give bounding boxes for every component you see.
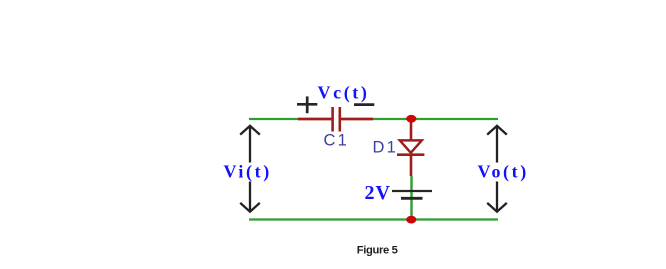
diode D1: [397, 140, 424, 154]
polarity minus sign: [354, 103, 374, 106]
wire bottom rail green: [249, 218, 498, 220]
svg-text:Figure 5: Figure 5: [357, 245, 398, 257]
wire top rail green left segment: [249, 118, 298, 120]
node junction bottom: [406, 216, 416, 224]
label Vo(t): [476, 162, 529, 183]
polarity plus sign: [297, 96, 317, 113]
wire capacitor left lead (red): [298, 118, 331, 121]
svg-text:Vo(t): Vo(t): [478, 162, 529, 183]
svg-text:Vi(t): Vi(t): [224, 162, 272, 183]
svg-text:D1: D1: [373, 138, 399, 156]
node junction top: [406, 115, 416, 123]
wire diode anode lead (red): [410, 119, 413, 140]
label D1: [373, 138, 399, 156]
wire battery branch (green): [410, 176, 412, 219]
wire top rail green right segment: [373, 118, 498, 120]
caption Figure 5: [357, 245, 398, 257]
label Vc(t): [318, 83, 370, 104]
wire diode cathode lead (red): [410, 155, 413, 176]
capacitor C1: [333, 107, 340, 132]
label 2V: [365, 182, 391, 204]
svg-text:C1: C1: [324, 131, 350, 149]
label Vi(t): [222, 162, 272, 183]
wire capacitor right lead (red): [341, 118, 373, 121]
arrow Vo(t) output indicator: [487, 126, 507, 212]
svg-text:2V: 2V: [365, 182, 391, 204]
battery V1 2V: [392, 191, 432, 198]
arrow Vi(t) input indicator: [240, 126, 260, 212]
svg-text:Vc(t): Vc(t): [318, 83, 370, 104]
label C1: [324, 131, 350, 149]
